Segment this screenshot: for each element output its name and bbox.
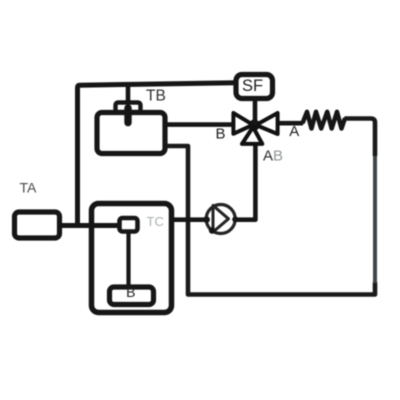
wire boiler to pump to valve port AB [172,144,256,220]
valve (3-way mixing) [233,113,277,144]
svg-text:AB: AB [263,148,283,165]
radiator zigzag [303,112,345,129]
boiler TC [92,204,172,313]
burner B [110,287,154,305]
svg-text:TC: TC [147,214,164,229]
wire TA to TC sensor [60,223,122,228]
pump [203,205,238,234]
wire radiator to right riser top [345,119,376,157]
sensor TB (pocket and probe) [116,103,141,123]
sensor TC (square) [120,218,138,232]
svg-text:B: B [216,125,226,142]
wire TB to valve port B [165,122,234,127]
sensor TA (outdoor) [15,212,60,238]
svg-text:TA: TA [20,180,38,196]
wire SF to left drop down to TA line [78,83,237,226]
wire right riser (faded) [373,152,377,283]
wire TC sensor to burner B [126,232,130,287]
wire valve port A to radiator [277,121,303,126]
svg-text:SF: SF [242,77,263,95]
wire return loop: TB bottom out, down and along bottom [165,146,375,295]
svg-text:TB: TB [146,88,166,105]
controller SF [236,75,273,99]
tank TB [97,113,165,154]
svg-text:A: A [289,123,299,140]
svg-text:B: B [126,284,135,300]
wire SF to valve actuator stem [253,99,258,126]
wire stub down to TB sensor [126,84,131,103]
